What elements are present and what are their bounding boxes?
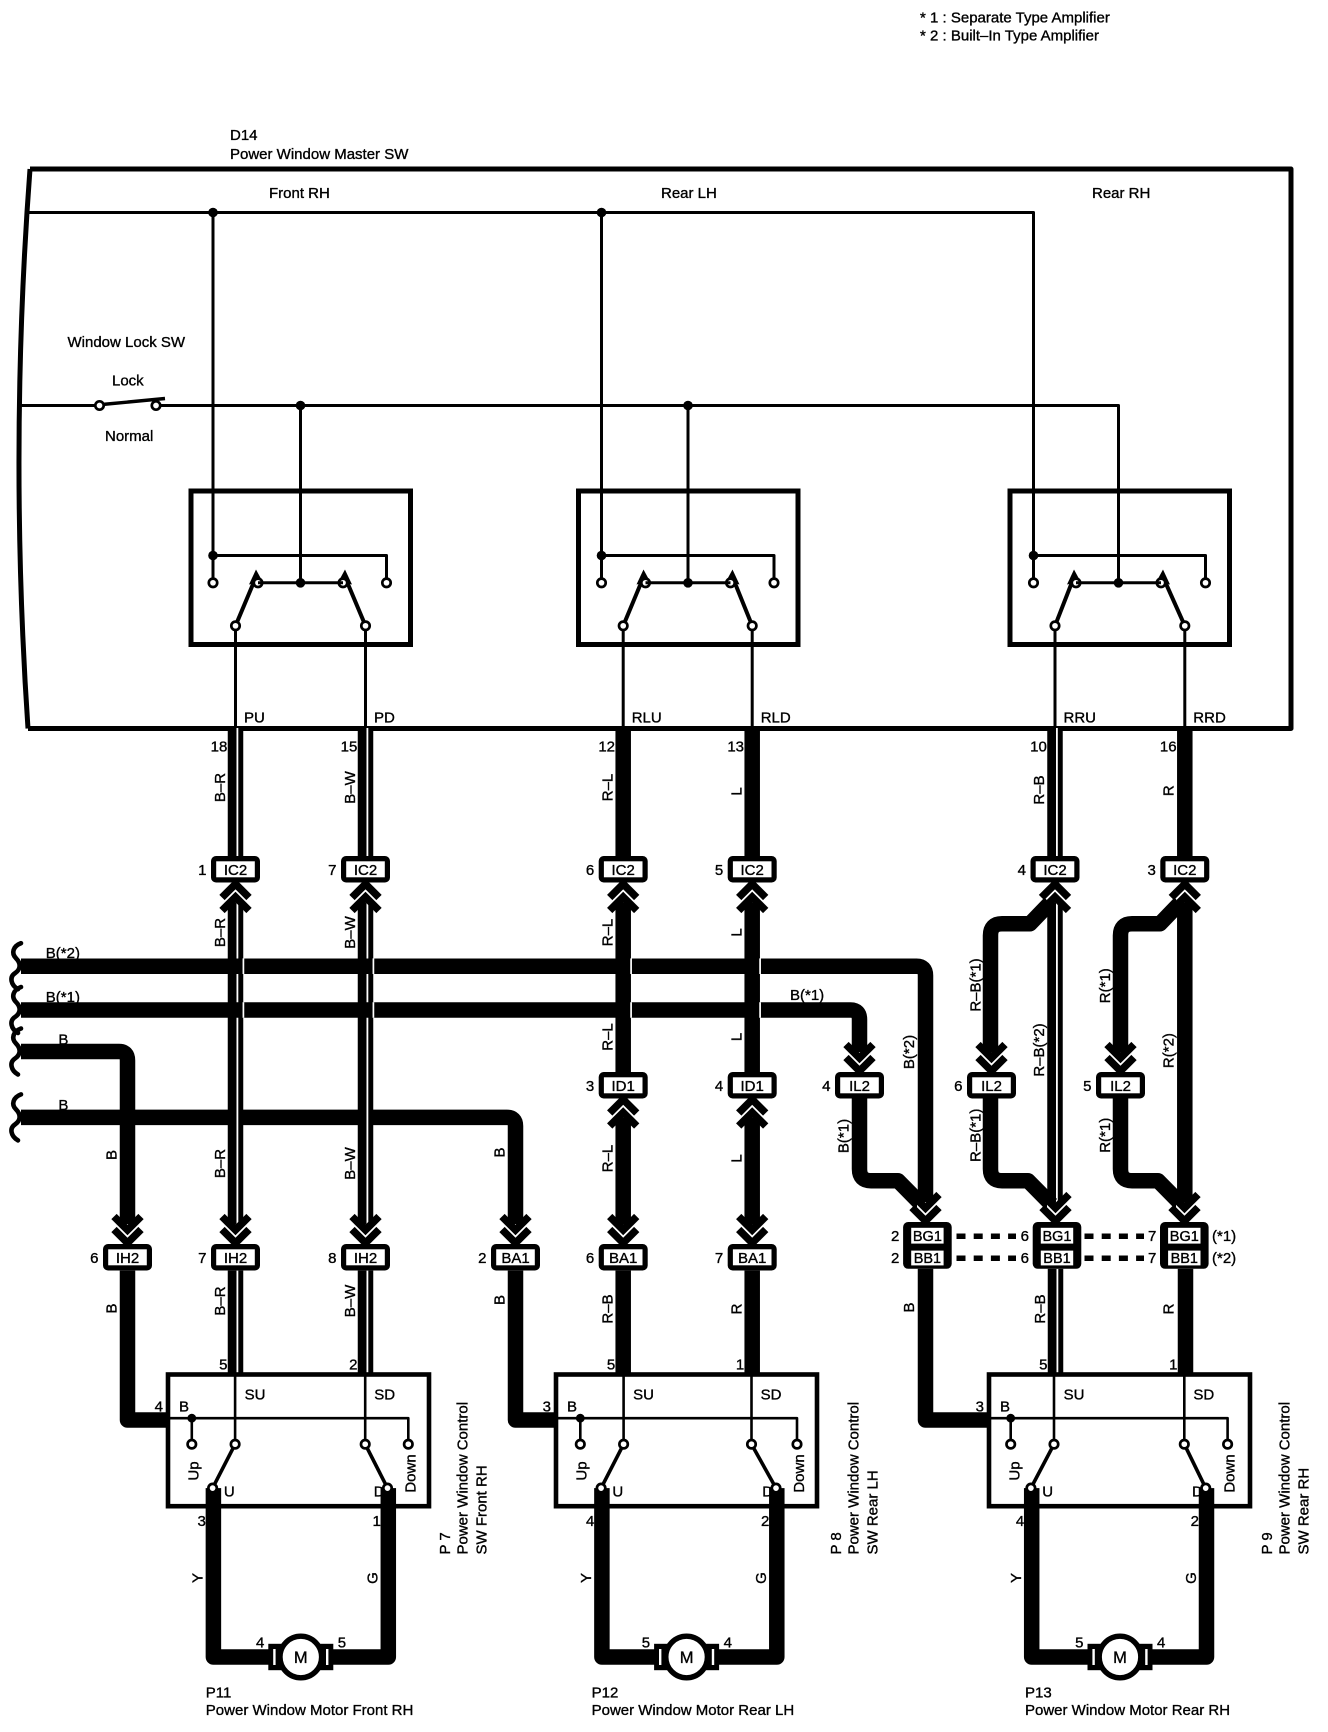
svg-text:4: 4 (256, 1635, 264, 1652)
svg-text:SD: SD (374, 1387, 395, 1404)
svg-text:RRU: RRU (1064, 710, 1097, 727)
pin numbers P 9 (976, 1357, 1199, 1531)
wire B(*1) from IL2-4 down to BG1 (860, 1099, 922, 1205)
svg-text:4: 4 (822, 1078, 830, 1095)
label B upper (58, 1032, 68, 1049)
svg-text:18: 18 (211, 739, 228, 756)
svg-text:4: 4 (155, 1399, 163, 1416)
wire R into P9 SD (1178, 1269, 1194, 1375)
motor P12 (654, 1636, 719, 1678)
svg-text:Y: Y (578, 1573, 595, 1583)
contact Rear RH left outer (1029, 556, 1037, 588)
svg-text:7: 7 (198, 1250, 206, 1267)
wire label R(*1) (RRDbr) (1097, 1118, 1114, 1153)
svg-text:Power Window Control: Power Window Control (845, 1402, 862, 1555)
svg-text:16: 16 (1160, 739, 1177, 756)
connector ID1 pin3 (586, 1072, 648, 1099)
wire B(*2) horizontal bus (21, 966, 926, 1202)
contact Front RH right outer (382, 579, 390, 587)
svg-text:R: R (729, 1303, 746, 1314)
connector IC2 pin6 (586, 856, 648, 883)
connector arrow into BA1 pin2 (502, 1217, 529, 1245)
svg-text:RLD: RLD (761, 710, 791, 727)
svg-text:ID1: ID1 (612, 1078, 635, 1095)
wire label L (RLD) (729, 928, 746, 936)
wire label Y (P8L) (578, 1573, 595, 1583)
connector IC2 pin3 (1147, 856, 1209, 883)
svg-text:B–R: B–R (212, 773, 229, 802)
svg-text:Power Window Motor Rear LH: Power Window Motor Rear LH (592, 1702, 795, 1719)
power window control SW box P 8 (556, 1375, 817, 1507)
wire label R&#8211;B (RRU) (1032, 1294, 1049, 1323)
junction node lock bus (Rear LH) (683, 401, 693, 411)
svg-text:B: B (104, 1150, 121, 1160)
svg-text:1: 1 (372, 1513, 380, 1530)
wire label B (Bv1) (104, 1303, 121, 1313)
wire label B&#8211;R (PU) (212, 773, 229, 802)
svg-text:B–W: B–W (342, 770, 359, 803)
connector arrow into IC2 pin4 (1042, 883, 1069, 911)
svg-text:R–B(*2): R–B(*2) (1031, 1023, 1048, 1076)
svg-text:BB1: BB1 (1043, 1251, 1070, 1267)
svg-text:4: 4 (1157, 1635, 1165, 1652)
svg-text:Power Window Control: Power Window Control (1276, 1402, 1293, 1555)
svg-text:M: M (294, 1649, 308, 1667)
svg-text:B(*1): B(*1) (790, 987, 824, 1004)
contact Rear LH left outer (597, 556, 605, 588)
svg-text:R–B: R–B (600, 1294, 617, 1323)
connector arrow into IC2 pin6 (610, 883, 637, 911)
svg-text:IC2: IC2 (354, 862, 377, 879)
wire R-L column RLU segment (615, 1099, 631, 1226)
svg-text:U: U (612, 1484, 623, 1501)
wire B horizontal (to IH2 pin6) (21, 1052, 128, 1225)
svg-text:SU: SU (245, 1387, 266, 1404)
svg-text:IL2: IL2 (1110, 1078, 1131, 1095)
wire label R&#8211;L (RLU) (600, 774, 617, 802)
wire label B (Bv1) (104, 1150, 121, 1160)
connector BA1 pin7 (715, 1244, 777, 1271)
bottom contacts Front RH (231, 622, 369, 630)
wire feed Rear LH from top bus (600, 213, 603, 557)
svg-text:13: 13 (727, 739, 744, 756)
svg-text:L: L (729, 928, 746, 936)
svg-text:Rear LH: Rear LH (661, 185, 717, 202)
common bar Rear LH (602, 556, 775, 579)
wire G to motor P12 (712, 1504, 777, 1657)
wire label B (Bv2) (492, 1295, 509, 1305)
master switch box D14 outline (19, 169, 1291, 729)
label PD and pin 15 (341, 710, 395, 756)
label B(*1) left (46, 989, 80, 1006)
svg-text:2: 2 (478, 1250, 486, 1267)
label B lower (58, 1097, 68, 1114)
svg-text:7: 7 (1148, 1250, 1156, 1267)
svg-text:B–R: B–R (212, 1149, 229, 1178)
connector IH2 pin7 (198, 1244, 260, 1271)
svg-text:3: 3 (586, 1078, 594, 1095)
wire label R (RRD) (1161, 1303, 1178, 1314)
svg-text:B: B (567, 1399, 577, 1416)
svg-text:R–L: R–L (600, 1023, 617, 1051)
svg-text:B: B (1000, 1399, 1010, 1416)
wire center feed Front RH (299, 406, 302, 583)
svg-text:8: 8 (328, 1250, 336, 1267)
connector IL2 pin6 (954, 1072, 1016, 1099)
svg-text:Down: Down (402, 1454, 419, 1492)
internal B line P 9 (989, 1418, 1228, 1440)
label P 7 designation (437, 1402, 490, 1555)
switch blade up P 9 (1031, 1444, 1054, 1488)
switch blade down P 8 (752, 1444, 777, 1488)
connector arrow into BA1 pin6 (610, 1217, 637, 1245)
wire label B&#8211;R (PU) (212, 1286, 229, 1315)
wire Rear LH down-drops to box bottom (623, 629, 752, 728)
wire label R&#8211;L (RLU) (600, 1023, 617, 1051)
svg-text:3: 3 (198, 1513, 206, 1530)
svg-text:ID1: ID1 (741, 1078, 764, 1095)
svg-text:15: 15 (341, 739, 358, 756)
wire B from BA1-2 to P8 (516, 1271, 557, 1420)
svg-text:BB1: BB1 (914, 1251, 941, 1267)
label Normal (105, 428, 153, 445)
label Lock (112, 373, 144, 390)
connector arrow into ID1 pin4 (739, 1099, 766, 1127)
connector arrow into BG1 pin6 (1042, 1195, 1069, 1223)
contact Rear RH right outer (1201, 579, 1209, 587)
svg-text:U: U (224, 1484, 235, 1501)
motor pin numbers P11 (256, 1635, 346, 1652)
connector ID1 pin4 (715, 1072, 777, 1099)
svg-text:R–L: R–L (600, 1145, 617, 1173)
svg-text:BG1: BG1 (913, 1229, 942, 1245)
svg-text:D: D (374, 1484, 385, 1501)
svg-text:5: 5 (338, 1635, 346, 1652)
svg-text:(*2): (*2) (1212, 1250, 1236, 1267)
svg-text:IH2: IH2 (354, 1250, 377, 1267)
label PU and pin 18 (211, 710, 265, 756)
connector BA1 pin2 (478, 1244, 540, 1271)
wire Rear RH down-drops to box bottom (1055, 629, 1185, 728)
svg-text:P 8: P 8 (828, 1532, 845, 1554)
label P 9 designation (1259, 1402, 1312, 1555)
wire B-W column PD segment (358, 728, 374, 856)
svg-text:R(*2): R(*2) (1161, 1033, 1178, 1068)
svg-text:Down: Down (791, 1454, 808, 1492)
svg-text:B: B (58, 1032, 68, 1049)
svg-text:B–R: B–R (212, 1286, 229, 1315)
label P13 (1025, 1685, 1230, 1720)
svg-text:7: 7 (328, 862, 336, 879)
label D14 Power Window Master SW (230, 127, 409, 163)
switch blade Front RH down (339, 570, 366, 626)
svg-text:5: 5 (607, 1357, 615, 1374)
svg-text:BA1: BA1 (738, 1250, 766, 1267)
junction node Rear LH common (597, 551, 607, 561)
svg-text:6: 6 (954, 1078, 962, 1095)
svg-text:BA1: BA1 (501, 1250, 529, 1267)
svg-text:IC2: IC2 (1173, 862, 1196, 879)
contact circles P 9 (1007, 1440, 1232, 1492)
power window control SW box P 7 (168, 1375, 429, 1507)
wire R-B column RRU segment (1047, 884, 1063, 1203)
switch blade Rear LH up (623, 570, 650, 626)
wire label R&#8211;B(*1) (RRUbr) (968, 958, 985, 1011)
switch blade Rear LH down (726, 570, 752, 626)
wire B(*1) horizontal bus (21, 1010, 860, 1052)
wire label B&#8211;R (PU) (212, 1149, 229, 1178)
svg-text:RRD: RRD (1193, 710, 1226, 727)
svg-text:2: 2 (1191, 1513, 1199, 1530)
svg-text:5: 5 (1075, 1635, 1083, 1652)
continuation squiggle B upper (11, 1029, 21, 1075)
motor pin numbers P13 (1075, 1635, 1165, 1652)
connector arrow into IC2 pin7 (352, 883, 379, 911)
wire R-L column RLU segment (615, 728, 631, 856)
svg-text:M: M (1113, 1649, 1127, 1667)
wire label R&#8211;B (RRU) (1031, 775, 1048, 804)
svg-text:P13: P13 (1025, 1685, 1052, 1702)
svg-text:Down: Down (1222, 1454, 1239, 1492)
wire label B&#8211;W (PD) (342, 1146, 359, 1179)
svg-text:2: 2 (891, 1228, 899, 1245)
svg-text:B–W: B–W (342, 1146, 359, 1179)
common bar Front RH (213, 556, 387, 579)
label P12 (592, 1685, 795, 1720)
wire L column RLD segment (744, 1271, 760, 1375)
contact circles P 7 (188, 1440, 413, 1492)
internal SU/SD drops P 8 (624, 1375, 752, 1445)
svg-text:5: 5 (1083, 1078, 1091, 1095)
connector arrow into BG1 pin2 (912, 1195, 939, 1223)
svg-text:B: B (492, 1295, 509, 1305)
power window control SW box P 9 (989, 1375, 1250, 1507)
wire L column RLD segment (744, 728, 760, 856)
label P11 (206, 1685, 414, 1720)
wire label B(*1) (IL24) (836, 1119, 853, 1153)
labels inside P 8 (567, 1387, 808, 1501)
svg-text:BG1: BG1 (1042, 1229, 1071, 1245)
wire label B&#8211;W (PD) (342, 915, 359, 948)
svg-text:* 2 : Built–In Type Amplifier: * 2 : Built–In Type Amplifier (920, 28, 1099, 45)
connector arrow into IL2 pin5 (1107, 1045, 1134, 1073)
connector arrow into IC2 pin3 (1171, 883, 1198, 911)
svg-text:RLU: RLU (632, 710, 662, 727)
svg-text:D14: D14 (230, 127, 258, 144)
svg-text:P12: P12 (592, 1685, 619, 1702)
svg-text:1: 1 (198, 862, 206, 879)
wire B-W column PD segment (358, 884, 374, 1225)
svg-text:PU: PU (244, 710, 265, 727)
svg-text:IH2: IH2 (224, 1250, 247, 1267)
svg-text:R–B: R–B (1032, 1294, 1049, 1323)
wire center feed Rear LH (687, 406, 690, 583)
wire label L (RLD) (729, 1033, 746, 1041)
junction node B P 7 (187, 1414, 196, 1440)
svg-text:IL2: IL2 (849, 1078, 870, 1095)
svg-text:IC2: IC2 (612, 862, 635, 879)
svg-text:U: U (1042, 1484, 1053, 1501)
motor P13 (1088, 1636, 1153, 1678)
connector IC2 pin7 (328, 856, 390, 883)
wire G to motor P11 (326, 1504, 389, 1657)
svg-text:IC2: IC2 (741, 862, 764, 879)
svg-text:SW Front RH: SW Front RH (473, 1465, 490, 1554)
svg-text:3: 3 (1147, 862, 1155, 879)
connector IC2 pin5 (715, 856, 777, 883)
svg-text:G: G (365, 1572, 382, 1584)
junction node Rear RH common (1029, 551, 1039, 561)
svg-text:Y: Y (190, 1573, 207, 1583)
connector arrow into IH2 pin6 (114, 1217, 141, 1245)
wire lock bus right segment (161, 406, 1119, 583)
wire R-B into P9 SU (1048, 1269, 1064, 1375)
label Front RH (269, 185, 330, 202)
contact row Front RH (254, 578, 347, 588)
svg-text:SU: SU (633, 1387, 654, 1404)
svg-text:Power Window Motor Rear RH: Power Window Motor Rear RH (1025, 1702, 1230, 1719)
svg-text:SW Rear LH: SW Rear LH (864, 1470, 881, 1554)
bottom contacts Rear LH (619, 622, 756, 630)
svg-text:IC2: IC2 (224, 862, 247, 879)
svg-text:B–W: B–W (342, 1284, 359, 1317)
svg-text:L: L (729, 1154, 746, 1162)
wire B-R column PU segment (228, 884, 244, 1225)
internal B line P 8 (556, 1418, 797, 1440)
wire label L (RLD) (729, 1154, 746, 1162)
connector arrow into IC2 pin5 (739, 883, 766, 911)
label Window Lock SW (68, 334, 186, 351)
wire label R (RLD) (729, 1303, 746, 1314)
wire R(*1) branch from IC2-3 to IL2-5 (1121, 903, 1181, 1053)
svg-text:Rear RH: Rear RH (1092, 185, 1150, 202)
svg-text:B: B (179, 1399, 189, 1416)
svg-text:L: L (729, 787, 746, 795)
label RRD and pin 16 (1160, 710, 1226, 756)
svg-text:Y: Y (1008, 1573, 1025, 1583)
connector BG1/BB1 pin2 (891, 1222, 952, 1269)
wire label G (P9R) (1183, 1572, 1200, 1584)
svg-text:4: 4 (715, 1078, 723, 1095)
connector arrow into IC2 pin1 (222, 883, 249, 911)
wire R-B(*1) from IL2-6 down to BG1 (991, 1099, 1052, 1205)
svg-text:BB1: BB1 (1171, 1251, 1198, 1267)
svg-text:B(*2): B(*2) (46, 945, 80, 962)
crossing notches (243, 958, 761, 1017)
switch blade down P 9 (1184, 1444, 1205, 1488)
svg-text:2: 2 (761, 1513, 769, 1530)
svg-text:12: 12 (598, 739, 615, 756)
svg-text:Lock: Lock (112, 373, 144, 390)
wire B (to BA1 pin2) horizontal (21, 1117, 516, 1224)
pin numbers P 7 (155, 1357, 381, 1531)
svg-text:B(*1): B(*1) (836, 1119, 853, 1153)
svg-text:Power Window Motor Front RH: Power Window Motor Front RH (206, 1702, 414, 1719)
wire label R (RRD) (1161, 785, 1178, 796)
switch box Rear LH (579, 491, 799, 645)
svg-text:B(*1): B(*1) (46, 989, 80, 1006)
wire B from IH2-6 to P7 (128, 1271, 169, 1420)
svg-text:Power Window Master SW: Power Window Master SW (230, 146, 409, 163)
note legend: amplifier types (920, 10, 1110, 45)
svg-text:SD: SD (1193, 1387, 1214, 1404)
wire lock bus left segment (20, 404, 95, 407)
wire feed Front RH from top bus (212, 213, 215, 557)
svg-text:6: 6 (90, 1250, 98, 1267)
svg-text:6: 6 (586, 1250, 594, 1267)
continuation squiggle B(*2) (11, 943, 21, 989)
continuation squiggle B(*1) (11, 987, 21, 1033)
connector IC2 pin1 (198, 856, 260, 883)
svg-text:4: 4 (1016, 1513, 1024, 1530)
connector arrow into BA1 pin7 (739, 1217, 766, 1245)
wire label R&#8211;L (RLU) (600, 1145, 617, 1173)
wire R-B column RRU segment (1047, 728, 1063, 856)
svg-text:PD: PD (374, 710, 395, 727)
svg-text:1: 1 (736, 1357, 744, 1374)
svg-text:R–B: R–B (1031, 775, 1048, 804)
svg-text:P 7: P 7 (437, 1532, 454, 1554)
wire label R&#8211;B(*2) (RRU) (1031, 1023, 1048, 1076)
label RLU and pin 12 (598, 710, 661, 756)
svg-text:L: L (729, 1033, 746, 1041)
svg-text:7: 7 (715, 1250, 723, 1267)
svg-text:R(*1): R(*1) (1097, 1118, 1114, 1153)
svg-text:3: 3 (543, 1399, 551, 1416)
wire label R&#8211;L (RLU) (600, 919, 617, 947)
wire R column RRD segment (1177, 728, 1193, 856)
svg-text:4: 4 (586, 1513, 594, 1530)
junction node on top bus (Front RH) (208, 208, 218, 218)
svg-text:R(*1): R(*1) (1097, 968, 1114, 1003)
svg-text:B(*2): B(*2) (901, 1035, 918, 1069)
svg-text:R–B(*1): R–B(*1) (968, 958, 985, 1011)
svg-text:5: 5 (715, 862, 723, 879)
label B(*1) right (790, 987, 824, 1004)
switch blade Front RH up (236, 570, 263, 626)
svg-text:Power Window Control: Power Window Control (454, 1402, 471, 1555)
connector arrow into IL2 pin4 (846, 1045, 873, 1073)
wire label Y (P9L) (1008, 1573, 1025, 1583)
svg-text:Normal: Normal (105, 428, 153, 445)
svg-text:5: 5 (642, 1635, 650, 1652)
svg-text:IC2: IC2 (1043, 862, 1066, 879)
labels inside P 7 (179, 1387, 419, 1501)
svg-text:BG1: BG1 (1170, 1229, 1199, 1245)
svg-text:1: 1 (1169, 1357, 1177, 1374)
switch blade Rear RH up (1055, 570, 1081, 626)
wire label B (Bv2) (492, 1147, 509, 1157)
junction node Front RH common (208, 551, 218, 561)
svg-text:Front RH: Front RH (269, 185, 330, 202)
svg-text:* 1 : Separate Type Amplifier: * 1 : Separate Type Amplifier (920, 10, 1110, 27)
wire R-L column RLU segment (615, 1271, 631, 1375)
svg-text:P11: P11 (206, 1685, 232, 1702)
wire R-L column RLU segment (615, 884, 631, 1072)
junction node B P 9 (1006, 1414, 1015, 1440)
svg-text:SW Rear RH: SW Rear RH (1295, 1468, 1312, 1555)
wire B-W column PD segment (358, 1271, 374, 1375)
svg-text:R–L: R–L (600, 919, 617, 947)
switch blade Rear RH down (1157, 570, 1185, 626)
junction node B P 8 (576, 1414, 585, 1440)
svg-text:5: 5 (219, 1357, 227, 1374)
svg-text:G: G (753, 1572, 770, 1584)
svg-text:G: G (1183, 1572, 1200, 1584)
wire label R&#8211;B (RLU) (600, 1294, 617, 1323)
label RLD and pin 13 (727, 710, 791, 756)
svg-text:6: 6 (1021, 1250, 1029, 1267)
